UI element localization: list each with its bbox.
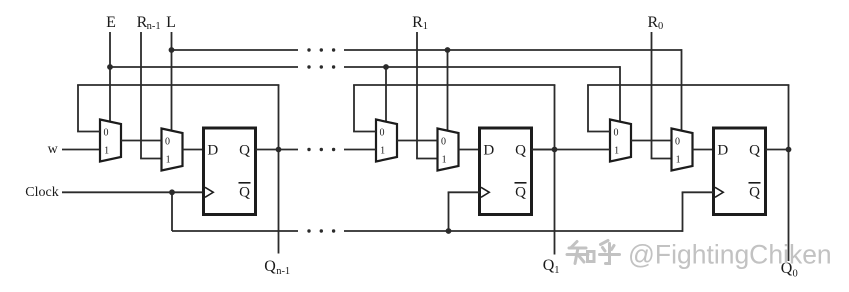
node Qn-1 label (264, 258, 290, 277)
wire feedback Qn-1 horizontal (77, 84, 279, 86)
ellipsis dots top L row (307, 48, 335, 51)
svg-text:L: L (166, 14, 176, 31)
junction node Q0 (786, 147, 792, 153)
wire mux U2A output to mux U2B input 0 (397, 140, 438, 142)
ellipsis dots clock bus row (307, 229, 335, 232)
wire feedback Qn-1 down to mux U1A input 0 (77, 85, 100, 132)
wire E bus segment right (344, 66, 620, 68)
wire Q1 output from U2 to node (532, 149, 555, 151)
wire mux U3B output to D input (693, 149, 714, 151)
wire L bus segment left (172, 49, 299, 51)
svg-text:0: 0 (441, 137, 446, 148)
wire feedback Q0 up (788, 85, 790, 150)
svg-text:1: 1 (442, 155, 447, 166)
node w label (48, 142, 59, 157)
junction E bus stage2 (383, 64, 389, 70)
watermark zhihu logo glyphs (567, 241, 620, 264)
watermark text (628, 240, 832, 270)
wire Q1 to mux U3A input 1 (532, 149, 611, 151)
node E label (106, 14, 116, 31)
wire output Q1 drop (554, 150, 556, 255)
svg-text:n-1: n-1 (276, 266, 290, 277)
wire output Q0 drop (788, 150, 790, 262)
wire feedback Q1 up (554, 85, 556, 150)
D flip-flop U2 (480, 128, 532, 215)
wire Clock line from label to FF1 (62, 191, 204, 193)
svg-text:@FightingChiken: @FightingChiken (628, 240, 832, 270)
svg-text:w: w (48, 142, 59, 157)
wire output Qn-1 drop (278, 150, 280, 254)
svg-text:0: 0 (614, 128, 619, 139)
wire Clock bus segment right (344, 230, 683, 232)
mux U1A (E-controlled 2-to-1) (100, 120, 121, 162)
mux U2A (E-controlled 2-to-1) (376, 120, 397, 162)
node R1 label (412, 14, 428, 32)
wire feedback Q1 down to mux U2A input 0 (353, 85, 376, 132)
wire feedback Q0 horizontal (587, 84, 789, 86)
node Clock label (25, 185, 58, 200)
svg-text:1: 1 (104, 146, 109, 157)
svg-text:1: 1 (614, 146, 619, 157)
wire feedback Q1 horizontal (353, 84, 555, 86)
D flip-flop U3 (714, 128, 766, 215)
svg-text:R: R (412, 14, 423, 31)
svg-text:E: E (106, 14, 116, 31)
svg-text:1: 1 (423, 21, 428, 32)
svg-text:Q: Q (264, 258, 276, 275)
mux U2B (L-controlled 2-to-1) (438, 129, 459, 171)
junction Clock stage1 (169, 189, 175, 195)
mux U3A (E-controlled 2-to-1) (610, 120, 631, 162)
wire Q0 output from U3 to node (766, 149, 789, 151)
svg-text:D: D (483, 142, 494, 158)
junction node Qn-1 (276, 147, 282, 153)
svg-text:0: 0 (675, 137, 680, 148)
wire Clock bus segment left (172, 230, 298, 232)
wire R0 vertical stage3 (651, 32, 672, 159)
wire R1 vertical stage2 (416, 32, 437, 159)
svg-text:Q: Q (543, 257, 555, 274)
ellipsis dots shift line row (307, 148, 335, 151)
svg-text:1: 1 (380, 146, 385, 157)
wire E select stage3 (bus end corner) (619, 66, 621, 122)
node R0 label (647, 14, 663, 32)
wire mux U2B output to D input (459, 149, 480, 151)
wire E select stage2 (385, 67, 387, 123)
svg-text:D: D (207, 142, 218, 158)
node Q0 label (781, 260, 798, 280)
ellipsis dots top E row (307, 65, 335, 68)
junction node Q1 (552, 147, 558, 153)
svg-text:Q: Q (239, 142, 250, 158)
wire Qn-1 to dots (279, 149, 299, 151)
wire dots to mux U2A input 1 (344, 149, 376, 151)
wire clock riser stage3 (bus end corner) (682, 192, 714, 232)
node R n-1 label (137, 14, 161, 32)
wire L select stage3 (bus end corner) (681, 49, 683, 131)
wire E select stage1 (109, 32, 111, 123)
junction clock bus stage2 (446, 228, 452, 234)
junction L bus stage1 (169, 47, 175, 53)
wire E bus segment left (110, 66, 298, 68)
wire L select stage1 (171, 32, 173, 132)
svg-text:Clock: Clock (25, 185, 58, 200)
wire L select stage2 (447, 50, 449, 132)
wire L bus segment right (344, 49, 682, 51)
svg-text:Q: Q (515, 142, 526, 158)
wire R n-1 vertical stage1 (140, 32, 161, 159)
junction E bus stage1 (107, 64, 113, 70)
svg-text:0: 0 (104, 128, 109, 139)
svg-text:0: 0 (165, 137, 170, 148)
svg-text:1: 1 (676, 155, 681, 166)
wire mux U1B output to D input (183, 149, 204, 151)
svg-text:Q: Q (515, 184, 526, 200)
svg-text:0: 0 (380, 128, 385, 139)
mux U1B (L-controlled 2-to-1) (162, 129, 183, 171)
mux U3B (L-controlled 2-to-1) (672, 129, 693, 171)
svg-text:1: 1 (554, 265, 559, 276)
svg-text:0: 0 (793, 268, 798, 279)
wire feedback Qn-1 up (278, 85, 280, 150)
junction L bus stage2 (445, 47, 451, 53)
svg-text:1: 1 (166, 155, 171, 166)
svg-text:Q: Q (239, 184, 250, 200)
wire w input (62, 149, 100, 151)
wire mux U1A output to mux U1B input 0 (121, 140, 162, 142)
D flip-flop U1 (204, 128, 256, 215)
svg-text:n-1: n-1 (147, 21, 161, 32)
node L label (166, 14, 176, 31)
node Q1 label (543, 257, 560, 276)
svg-text:Q: Q (749, 184, 760, 200)
svg-text:D: D (717, 142, 728, 158)
wire feedback Q0 down to mux U3A input 0 (587, 85, 610, 132)
wire Clock drop to clock bus (171, 192, 173, 231)
svg-text:Q: Q (749, 142, 760, 158)
wire mux U3A output to mux U3B input 0 (631, 140, 672, 142)
wire clock riser stage2 (448, 192, 480, 231)
wire Qn-1 output from U1 to node (256, 149, 279, 151)
svg-text:0: 0 (658, 21, 663, 32)
svg-text:R: R (647, 14, 658, 31)
